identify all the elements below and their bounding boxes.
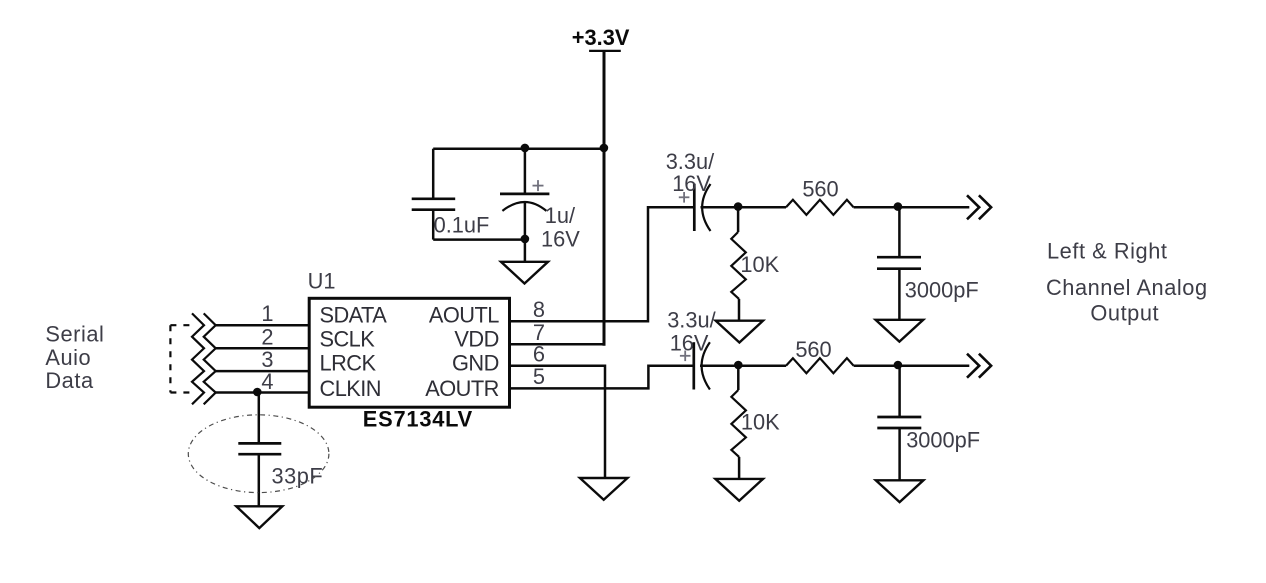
ground row2 3000pF bbox=[876, 480, 924, 502]
net +3.3V label bbox=[572, 25, 630, 50]
wire R3 to node2 bbox=[854, 364, 898, 367]
svg-text:1: 1 bbox=[261, 301, 273, 326]
svg-text:+3.3V: +3.3V bbox=[572, 25, 630, 50]
wire pin3 LRCK bbox=[216, 370, 310, 373]
arrow output row1 bbox=[967, 195, 991, 219]
label R3 560 bbox=[795, 337, 831, 362]
dashed bracket vertical bbox=[169, 325, 171, 392]
label R4 10K bbox=[741, 409, 780, 434]
capacitor C5 3000pF row1 bbox=[877, 207, 979, 319]
svg-text:560: 560 bbox=[802, 177, 838, 202]
svg-text:GND: GND bbox=[452, 351, 499, 376]
ground row1 10K bbox=[716, 321, 763, 343]
wire node to R1 bbox=[738, 206, 786, 209]
wire node2 to arrow row2 bbox=[898, 364, 969, 367]
svg-text:VDD: VDD bbox=[454, 326, 498, 351]
svg-text:0.1uF: 0.1uF bbox=[434, 213, 490, 238]
svg-text:Left & Right: Left & Right bbox=[1047, 238, 1168, 263]
capacitor C7 33pF bbox=[238, 443, 323, 506]
highlight ellipse around C7 bbox=[188, 415, 329, 493]
svg-text:10K: 10K bbox=[740, 252, 779, 277]
ground 33pF bbox=[236, 506, 282, 528]
wire pin4 CLKIN bbox=[216, 391, 310, 394]
node row2 R-divider junction bbox=[734, 361, 743, 370]
pin number 4 bbox=[261, 369, 273, 394]
svg-text:4: 4 bbox=[261, 369, 273, 394]
pin label LRCK bbox=[320, 351, 377, 376]
wire GND pin6 bbox=[510, 366, 606, 478]
svg-text:2: 2 bbox=[261, 324, 273, 349]
wire node2 to arrow bbox=[898, 206, 969, 209]
ground row2 10K bbox=[715, 479, 763, 501]
svg-text:Data: Data bbox=[45, 368, 94, 393]
node row1 R-divider junction bbox=[734, 202, 743, 211]
pin label GND bbox=[452, 351, 499, 376]
ground decoupling bbox=[501, 262, 548, 284]
svg-text:16V: 16V bbox=[670, 331, 709, 356]
wire C3 to node bbox=[701, 206, 739, 209]
wire pin1 SDATA bbox=[216, 324, 310, 327]
svg-text:LRCK: LRCK bbox=[320, 351, 377, 376]
pin number 5 bbox=[533, 364, 545, 389]
pin label VDD bbox=[454, 326, 498, 351]
svg-text:5: 5 bbox=[533, 364, 545, 389]
svg-text:Output: Output bbox=[1090, 301, 1159, 326]
svg-text:16V: 16V bbox=[541, 227, 580, 252]
wire C1 bottom to junction bbox=[433, 238, 525, 241]
capacitor C6 3000pF row2 bbox=[877, 366, 980, 481]
U1 designator bbox=[308, 269, 336, 294]
resistor R2 10K row1 bbox=[731, 207, 746, 320]
dashed bracket bottom bbox=[170, 391, 196, 393]
cable-bundle zigzag right bbox=[204, 313, 216, 404]
pin label AOUTR bbox=[425, 376, 499, 401]
svg-text:1u/: 1u/ bbox=[545, 203, 576, 228]
node row1 output junction bbox=[894, 202, 903, 211]
label R2 10K bbox=[740, 252, 779, 277]
wire pin2 SCLK bbox=[216, 347, 310, 350]
svg-text:Channel Analog: Channel Analog bbox=[1046, 275, 1208, 300]
node C2 top junction bbox=[521, 144, 530, 153]
part number ES7134LV bbox=[363, 407, 473, 432]
svg-text:3000pF: 3000pF bbox=[906, 428, 980, 453]
pin label SCLK bbox=[320, 326, 376, 351]
svg-text:ES7134LV: ES7134LV bbox=[363, 407, 473, 432]
cable-bundle zigzag left bbox=[192, 313, 204, 404]
pin number 2 bbox=[261, 324, 273, 349]
node CLKIN junction bbox=[253, 388, 262, 397]
svg-text:Serial: Serial bbox=[45, 322, 104, 347]
svg-text:U1: U1 bbox=[308, 269, 336, 294]
label R1 560 bbox=[802, 177, 838, 202]
svg-text:Auio: Auio bbox=[45, 345, 91, 370]
svg-text:SCLK: SCLK bbox=[320, 326, 376, 351]
capacitor C4 3.3u/16V row2 bbox=[667, 308, 716, 390]
ground row1 3000pF bbox=[876, 320, 924, 342]
svg-text:AOUTL: AOUTL bbox=[429, 303, 499, 328]
wire AOUTR pin5 to row2 bbox=[510, 366, 693, 389]
pin number 3 bbox=[261, 347, 273, 372]
pin number 8 bbox=[533, 297, 545, 322]
wire junction to ground bbox=[524, 240, 527, 262]
svg-text:CLKIN: CLKIN bbox=[320, 376, 381, 401]
resistor R3 560 row2 bbox=[786, 358, 854, 373]
pin number 6 bbox=[533, 342, 545, 367]
pin label CLKIN bbox=[320, 376, 381, 401]
pin number 7 bbox=[533, 320, 545, 345]
wire R1 to node2 bbox=[854, 206, 898, 209]
svg-text:AOUTR: AOUTR bbox=[425, 376, 499, 401]
svg-text:560: 560 bbox=[795, 337, 831, 362]
op IC U1 box bbox=[309, 298, 509, 407]
resistor R4 10K row2 bbox=[731, 366, 746, 479]
svg-text:3000pF: 3000pF bbox=[905, 278, 979, 303]
power symbol +3.3V bar bbox=[589, 50, 621, 52]
arrow output row2 bbox=[967, 354, 991, 378]
dashed bracket top bbox=[170, 324, 196, 326]
ground GND pin bbox=[580, 478, 628, 500]
wire decoupling top horizontal bbox=[433, 147, 604, 150]
node C1-C2 bottom junction bbox=[521, 235, 530, 244]
capacitor C1 0.1uF bbox=[412, 149, 490, 240]
wire C4 to node bbox=[700, 364, 738, 367]
resistor R1 560 bbox=[786, 200, 854, 215]
wire node to R3 bbox=[738, 364, 786, 367]
pin number 1 bbox=[261, 301, 273, 326]
pin label AOUTL bbox=[429, 303, 499, 328]
label Left & Right Channel Analog Output bbox=[1046, 238, 1208, 325]
capacitor C2 1u/16V bbox=[500, 149, 580, 252]
svg-text:SDATA: SDATA bbox=[320, 303, 388, 328]
svg-text:16V: 16V bbox=[672, 171, 711, 196]
wire CLKIN node to C7 bbox=[258, 392, 261, 443]
pin label SDATA bbox=[320, 303, 388, 328]
node row2 output junction bbox=[894, 361, 903, 370]
svg-text:8: 8 bbox=[533, 297, 545, 322]
svg-text:10K: 10K bbox=[741, 409, 780, 434]
svg-text:3.3u/: 3.3u/ bbox=[667, 308, 716, 333]
wire +3.3V rail vertical bbox=[603, 51, 606, 346]
node rail-decoupling junction bbox=[600, 144, 609, 153]
label Serial Auio Data bbox=[45, 322, 104, 394]
wire VDD pin7 to rail bbox=[510, 343, 604, 346]
capacitor C3 3.3u/16V bbox=[666, 149, 715, 231]
wire AOUTL pin8 to row1 bbox=[510, 207, 694, 321]
